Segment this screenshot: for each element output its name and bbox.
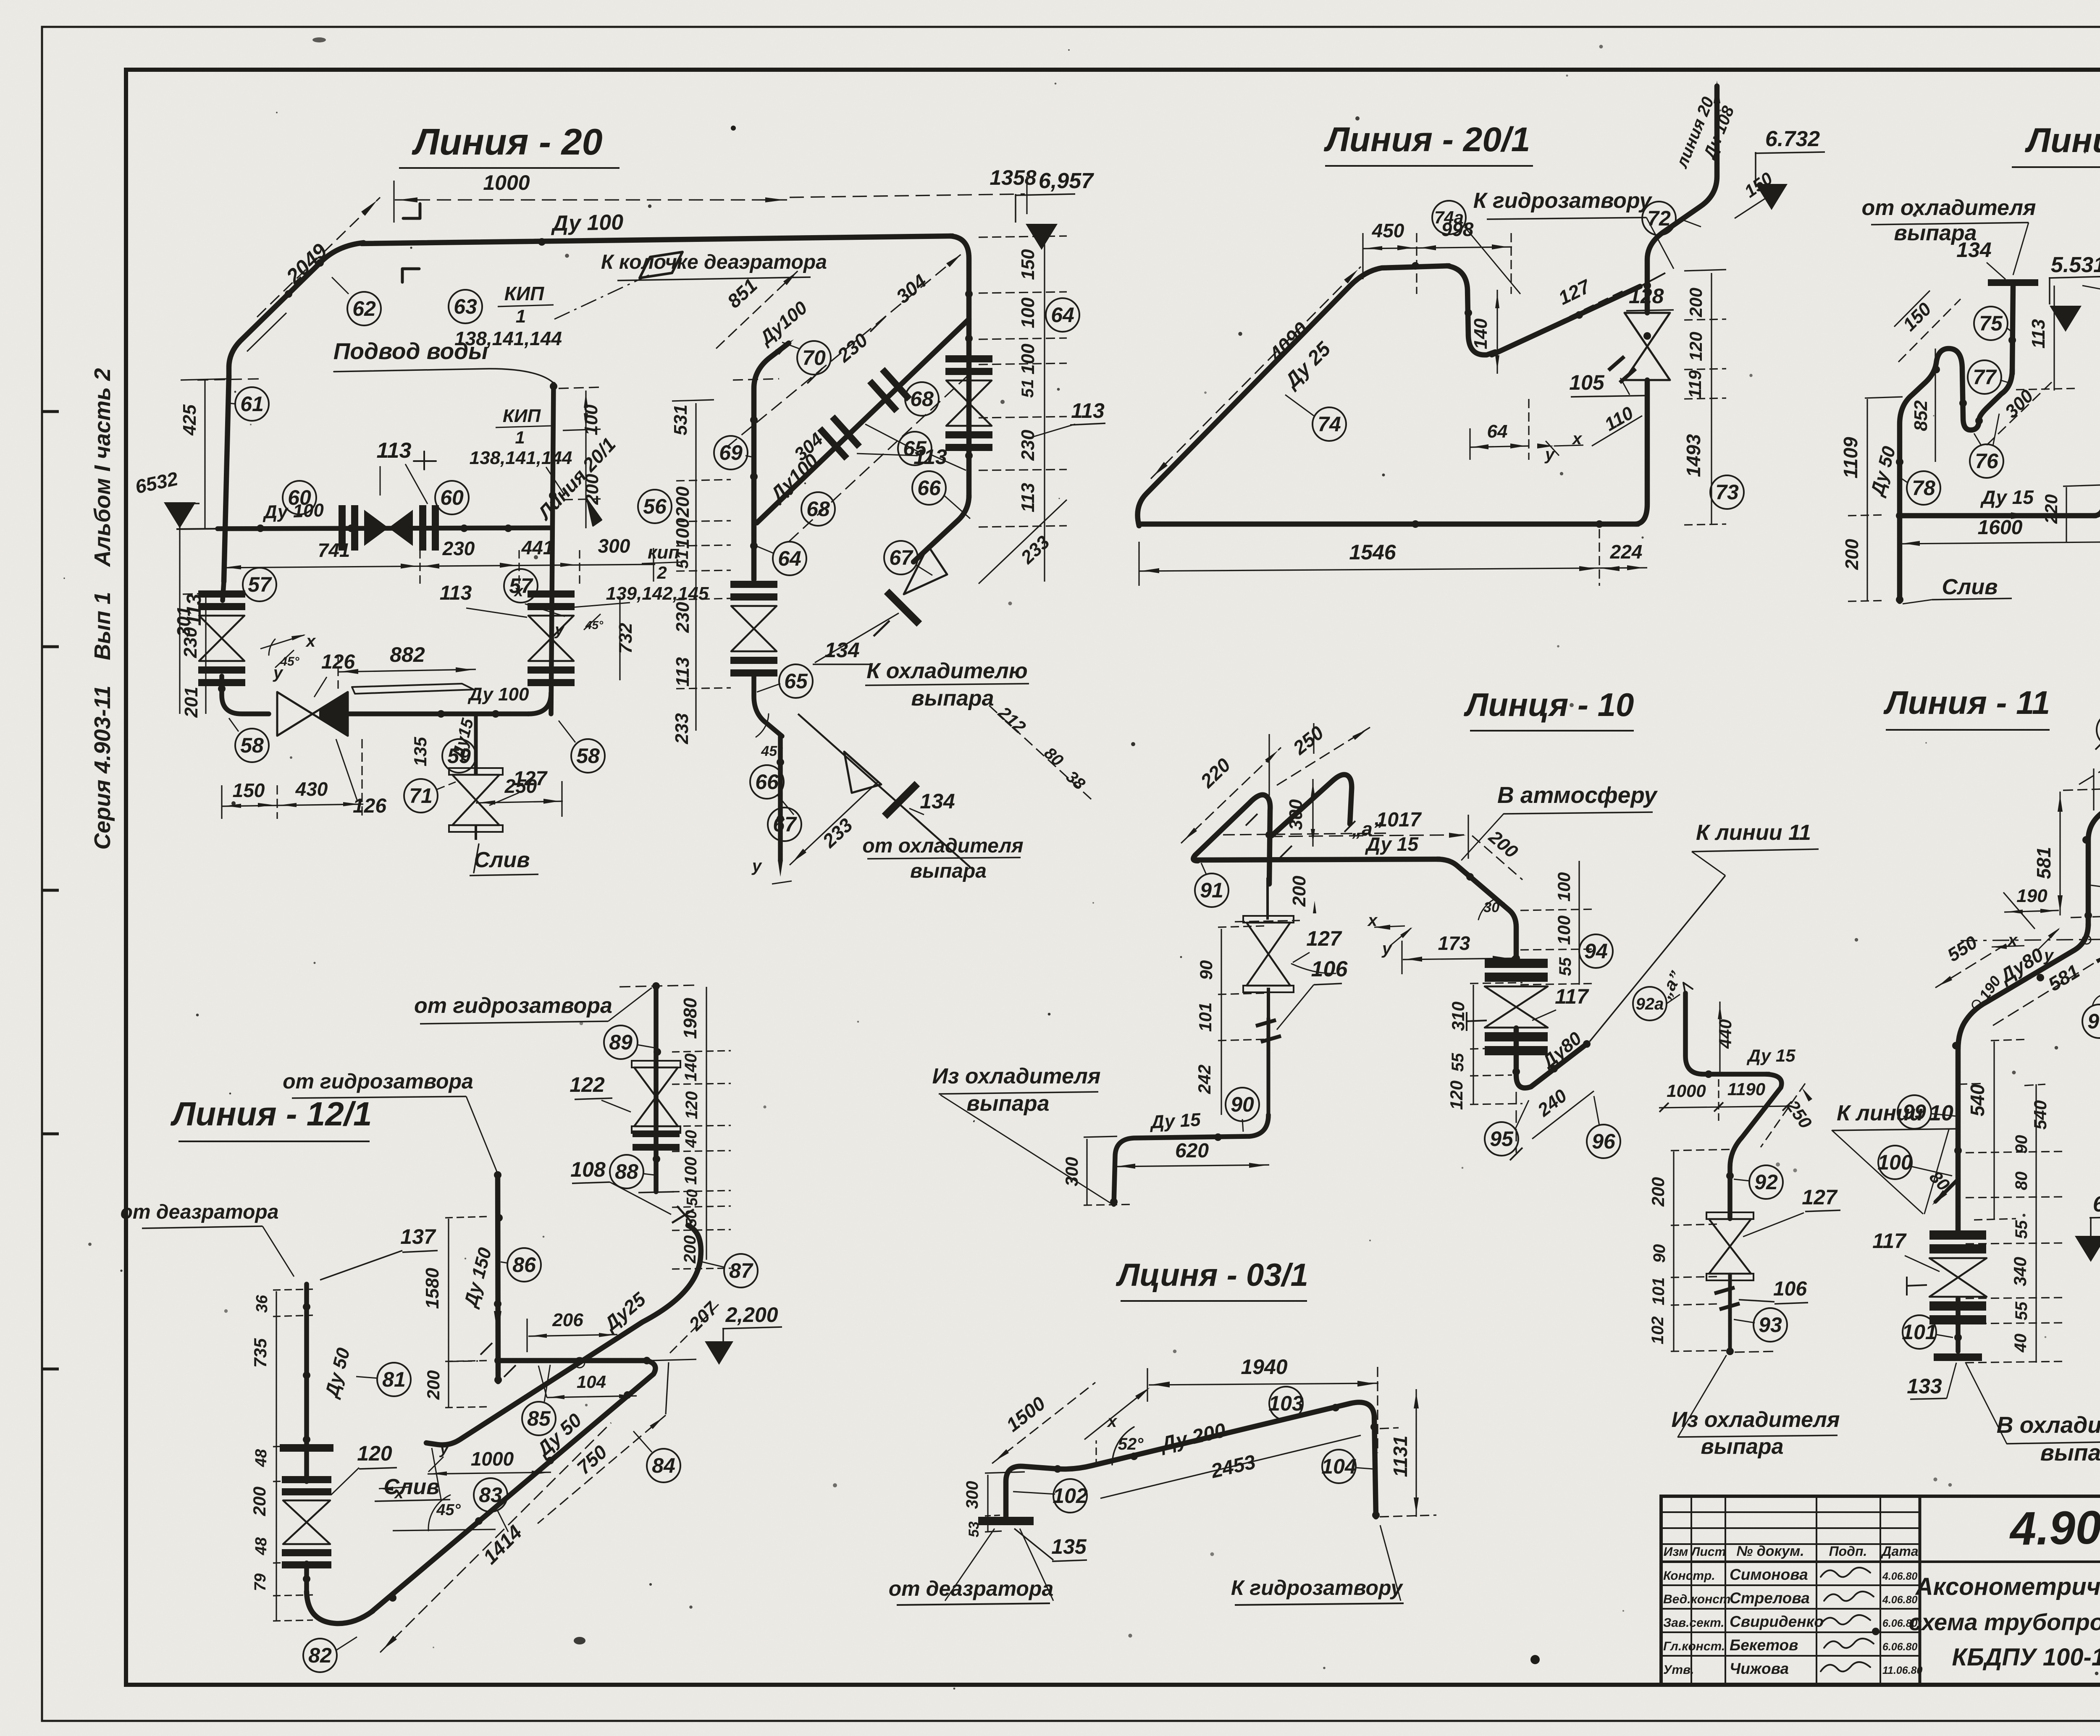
svg-text:Ду 15: Ду 15 [1980, 486, 2034, 508]
label 134 lower [909, 789, 955, 815]
svg-text:36: 36 [253, 1295, 271, 1313]
dim 240 line10 [1532, 1085, 1594, 1139]
circled 104 [1321, 1450, 1373, 1483]
dims 1000 1190 [1659, 1079, 1792, 1122]
svg-text:1017: 1017 [1376, 809, 1422, 831]
pipe below valve117 bend to diagonal [1516, 1028, 1587, 1088]
svg-text:Стрелова: Стрелова [1730, 1589, 1810, 1607]
svg-text:К охладителю: К охладителю [866, 659, 1027, 683]
svg-text:119: 119 [1685, 370, 1705, 399]
svg-text:1: 1 [515, 427, 525, 447]
circled 82 [303, 1637, 357, 1672]
svg-text:92а: 92а [1636, 995, 1664, 1013]
svg-text:Чижова: Чижова [1730, 1660, 1789, 1677]
svg-text:75: 75 [1979, 312, 2003, 335]
svg-text:у: у [1381, 939, 1392, 958]
45 deg label lower [756, 714, 783, 759]
level 6.732 mark [1755, 127, 1825, 210]
svg-text:425: 425 [179, 404, 200, 436]
svg-text:113: 113 [440, 582, 472, 604]
dim 173 line10 [1402, 932, 1518, 974]
svg-text:Линия - 20: Линия - 20 [411, 121, 602, 163]
ticks on diagonal line11 [2093, 768, 2094, 810]
svg-text:76: 76 [1975, 449, 1999, 473]
dim 1000 top [394, 171, 787, 223]
svg-text:92: 92 [1754, 1170, 1778, 1194]
pipe 20/1 s-bend down [1447, 266, 1495, 355]
svg-text:Из охладителя: Из охладителя [1671, 1408, 1840, 1432]
label от гидрозатвора upper [414, 988, 652, 1024]
x-y axis mark at valve57-right [513, 582, 604, 639]
svg-text:120: 120 [1446, 1080, 1466, 1110]
label 120 [331, 1442, 397, 1495]
dim chain right line10: 100 100 155 55 [1520, 861, 1596, 985]
svg-text:108: 108 [570, 1158, 606, 1181]
svg-text:48: 48 [252, 1537, 270, 1555]
title block columns left [1661, 1496, 1920, 1685]
dim 550 line11 lower left [1935, 932, 2012, 988]
dim 110 rotated [1592, 402, 1642, 446]
svg-text:135: 135 [410, 737, 430, 766]
label 127 [489, 768, 548, 805]
dim 220 line12 [2041, 485, 2100, 542]
dim 1131 03-1 [1380, 1389, 1436, 1517]
pipe elbow 45 down-left to cooler [913, 496, 969, 562]
svg-text:55: 55 [2012, 1220, 2031, 1239]
valve 127 slив branch [449, 714, 503, 840]
svg-text:6.600: 6.600 [2093, 1192, 2100, 1217]
dim 250 diagonal line10 [1277, 721, 1370, 785]
level mark 6532 [133, 467, 199, 528]
pipe line20 top run [362, 236, 953, 244]
svg-text:1940: 1940 [1241, 1355, 1287, 1379]
svg-text:138,141,144: 138,141,144 [470, 448, 572, 468]
circled 69 [714, 436, 756, 469]
svg-text:1: 1 [516, 306, 526, 327]
title Линия-12 [2012, 121, 2100, 167]
svg-text:1493: 1493 [1683, 434, 1704, 477]
svg-text:у: у [439, 1440, 449, 1458]
svg-text:1000: 1000 [483, 171, 530, 194]
svg-text:от гидрозатвора: от гидрозатвора [283, 1070, 473, 1093]
branch 80 arrow line11 [1926, 1167, 1958, 1205]
label К линии 10 line11 [1832, 1101, 1961, 1214]
svg-text:К гидрозатвору: К гидрозатвору [1231, 1576, 1403, 1600]
svg-text:190: 190 [2016, 886, 2047, 906]
svg-text:64: 64 [1051, 303, 1074, 327]
angle 45 12-1 [393, 1495, 496, 1531]
circled 67 right [884, 541, 932, 575]
svg-text:78: 78 [1912, 476, 1935, 500]
circled 60 right [435, 481, 469, 514]
dim 304 lower diagonal [789, 370, 974, 542]
circled 97 top [2095, 713, 2100, 750]
svg-text:300: 300 [963, 1481, 982, 1509]
svg-text:К колочке деаэратора: К колочке деаэратора [601, 251, 827, 273]
circled 100 [1877, 1146, 1952, 1179]
x-y axis line10 [1367, 911, 1412, 958]
svg-text:230: 230 [442, 538, 475, 559]
svg-text:100: 100 [1018, 344, 1038, 375]
svg-text:150: 150 [1018, 249, 1038, 280]
spindle mark valve126 [352, 684, 474, 694]
svg-text:Ду 15: Ду 15 [1365, 833, 1419, 855]
svg-text:852: 852 [1911, 400, 1931, 431]
dim 2453 [1100, 1435, 1361, 1498]
svg-text:у: у [1544, 445, 1555, 464]
svg-text:87: 87 [729, 1259, 753, 1282]
label от гидрозатвора lower [283, 1070, 498, 1174]
svg-text:140: 140 [682, 1054, 700, 1082]
svg-text:102: 102 [1648, 1316, 1667, 1345]
valve 117 line11 (black flanged gate) [1929, 1244, 1986, 1253]
svg-text:55: 55 [1556, 957, 1575, 976]
svg-text:150: 150 [233, 779, 265, 801]
circled 74a [1432, 201, 1520, 294]
svg-text:6.732: 6.732 [1765, 127, 1820, 151]
pipe line20 второй vertical x1795 [754, 343, 789, 580]
svg-text:540: 540 [1966, 1084, 1988, 1116]
svg-text:67: 67 [889, 546, 913, 569]
label 113 at valve57-left [183, 593, 205, 626]
label К гидрозатвору 03-1 [1231, 1525, 1404, 1605]
pipe 84 diagonal from junction down-left [372, 1361, 655, 1612]
dim 300 line12 diagonal [1987, 382, 2052, 445]
svg-text:53: 53 [966, 1521, 982, 1537]
svg-text:Аксонометрическая: Аксонометрическая [1915, 1573, 2100, 1600]
dim 207 diagonal [670, 1298, 722, 1353]
svg-text:от гидрозатвора: от гидрозатвора [414, 994, 612, 1018]
dim 1546 224 bottom [1139, 529, 1647, 586]
svg-text:51: 51 [673, 550, 692, 569]
dim 206 [527, 1310, 617, 1352]
dim chain left of valve117: 310 55 120 [1446, 983, 1522, 1110]
svg-text:70: 70 [802, 346, 826, 370]
diagonal pipe Ду100 68 [757, 319, 969, 523]
svg-text:250: 250 [504, 775, 537, 797]
arrow up to линия Дн108 [1714, 81, 1720, 103]
svg-text:Слив: Слив [474, 848, 530, 872]
svg-text:430: 430 [295, 778, 328, 800]
svg-text:Зав.сект.: Зав.сект. [1663, 1616, 1725, 1630]
label Подвод воды [333, 338, 554, 383]
label 106 92group [1739, 1278, 1808, 1304]
svg-text:310: 310 [1448, 1002, 1468, 1031]
dim 250 diagonal 92 [1761, 1083, 1816, 1147]
dim 200 vertical mid line10 [1235, 876, 1316, 922]
thin diagonal to cooler lower [798, 714, 970, 867]
flange bar 134 line12 top [1988, 279, 2038, 286]
svg-text:94: 94 [1584, 939, 1608, 963]
dim 113 at line12 top [2016, 286, 2075, 391]
svg-text:4.903-11-В.1-13: 4.903-11-В.1-13 [2009, 1497, 2100, 1555]
svg-text:133: 133 [1907, 1374, 1942, 1398]
dim 2049 diagonal [247, 197, 380, 351]
dim 212 80 38 along lower diagonal [989, 703, 1092, 800]
dim chain 92group: 200 90 101 102 [1648, 1149, 1734, 1351]
label 134 line12 [1956, 238, 2005, 279]
label от охладителя выпара line12 [1861, 196, 2036, 275]
svg-text:113: 113 [672, 657, 693, 687]
pipe line20 left vertical [224, 376, 229, 582]
weld dots top run [316, 259, 324, 267]
circled 88 [610, 1155, 654, 1188]
dim 1600 line12 [1900, 517, 2100, 546]
svg-text:Серия 4.903-11 Вып 1 Аль: Серия 4.903-11 Вып 1 Альбом I часть 2 [90, 368, 115, 850]
svg-text:1580: 1580 [422, 1268, 443, 1309]
valve 57-right (flanged gate) on drop [528, 603, 575, 610]
svg-text:Утв.: Утв. [1663, 1663, 1694, 1677]
svg-text:60: 60 [440, 486, 464, 509]
svg-text:45°: 45° [761, 743, 783, 759]
dashed elevation mark left vertical [197, 379, 262, 380]
svg-text:Линия - 11: Линия - 11 [1883, 684, 2050, 721]
svg-text:57: 57 [248, 573, 272, 596]
level 2.200 [705, 1303, 782, 1365]
weld dots right vertical [965, 290, 973, 298]
label от деазратора 12-1 [121, 1201, 294, 1277]
dim 750 Ду50 84 [531, 1409, 666, 1524]
dim 440 [1715, 1002, 1735, 1073]
svg-text:86: 86 [512, 1253, 536, 1277]
svg-text:4.06.80: 4.06.80 [1882, 1594, 1918, 1606]
svg-text:x: x [305, 632, 316, 650]
dim 1109 200 Ду50 left line12 [1840, 397, 1903, 601]
flange bar 134 upper [884, 589, 922, 627]
svg-text:120: 120 [1686, 332, 1706, 361]
pipe 82 vertical [304, 1448, 309, 1482]
circled 58 left [229, 718, 269, 762]
dim 450 998 top [1363, 218, 1512, 294]
pipe line10 bend 30deg down [1437, 859, 1516, 962]
dim chain right of right vertical: 150 100 100 51 230 113 233 [979, 227, 1067, 582]
pipe 92 below valve [1728, 1274, 1732, 1351]
label Из охладителя выпара line10 [932, 1064, 1114, 1205]
label Слив line20 [470, 844, 538, 876]
pipe line10 horizontal Ду15 [1196, 859, 1440, 860]
svg-text:67: 67 [773, 813, 797, 836]
svg-text:90: 90 [1650, 1244, 1669, 1263]
pipe line10 bottom elbow to left [1114, 1115, 1268, 1204]
svg-text:1358: 1358 [990, 166, 1036, 189]
svg-text:71: 71 [409, 784, 433, 808]
valve 127 line10 (cap bowtie) [1243, 916, 1294, 1018]
pipe line12 s-curve to middle [1900, 349, 2012, 601]
circled 56 with КИП 2 [638, 490, 672, 523]
svg-text:1131: 1131 [1389, 1436, 1411, 1477]
circled 94 [1579, 934, 1613, 968]
svg-text:1000: 1000 [1667, 1081, 1706, 1101]
dim 250 under slив [476, 775, 563, 817]
label Из охладителя выпара 92group [1671, 1356, 1840, 1459]
label В атмосферу [1462, 782, 1658, 860]
svg-text:66: 66 [917, 476, 941, 500]
level 5.531 mark line12 [2049, 253, 2100, 332]
svg-text:134: 134 [1956, 238, 1991, 262]
pipe line10 diagonal-1 with cap to valve column [1193, 795, 1270, 884]
reducer open triangle on cooler line [904, 546, 947, 594]
svg-text:74а: 74а [1434, 207, 1464, 227]
valve 57-left (flanged gate) [198, 603, 245, 610]
svg-text:101: 101 [1902, 1320, 1937, 1344]
svg-text:173: 173 [1438, 932, 1470, 954]
circled 62 [332, 277, 381, 325]
title Аксонометрическая схема [1909, 1573, 2100, 1671]
label линия Дн108 rotated [1672, 94, 1738, 171]
svg-text:106: 106 [1773, 1278, 1807, 1300]
svg-text:6.06.80: 6.06.80 [1882, 1641, 1918, 1653]
dim 135 Ду15 labels [410, 716, 477, 766]
dim 732 right [615, 596, 636, 680]
svg-text:200: 200 [1648, 1177, 1668, 1207]
svg-text:440: 440 [1715, 1019, 1735, 1049]
svg-text:от деазратора: от деазратора [121, 1201, 279, 1223]
valve 113 on second vertical (flanged gate) [730, 593, 777, 601]
circled 84 [633, 1431, 680, 1482]
svg-text:581: 581 [2033, 847, 2055, 879]
valve 122 (cap bowtie + flanges) [632, 1061, 680, 1151]
svg-text:КБДПУ 100-180: КБДПУ 100-180 [1952, 1644, 2100, 1671]
svg-text:620: 620 [1175, 1140, 1209, 1162]
pipe right vertical through valve113 [966, 359, 972, 498]
svg-text:88: 88 [615, 1160, 638, 1183]
svg-text:48: 48 [252, 1449, 270, 1467]
dim 64 x y axes 20/1 [1470, 399, 1583, 464]
dash-dot long horizontal line11 [1961, 937, 2100, 942]
svg-text:выпара: выпара [911, 686, 994, 711]
dim 581 top diagonal line11 [2079, 706, 2100, 784]
svg-text:100: 100 [1877, 1151, 1913, 1174]
dim 200 diagonal line10 right [1472, 826, 1522, 880]
flange bar 134 lower [882, 781, 920, 819]
svg-text:58: 58 [240, 734, 264, 757]
svg-text:134: 134 [824, 638, 859, 662]
svg-text:81: 81 [382, 1368, 406, 1391]
dim 1358 top [790, 166, 1037, 214]
circled 83 [474, 1478, 508, 1532]
pipe line10 diagonal-2 to а-prime [1272, 775, 1352, 836]
circled 74 [1285, 395, 1346, 441]
svg-text:77: 77 [1973, 365, 1997, 389]
pipe 92 vertical upper [1685, 993, 1769, 1074]
svg-text:45°: 45° [436, 1501, 461, 1519]
svg-text:84: 84 [652, 1454, 675, 1477]
КИП 1 block near Подвод воды [470, 406, 572, 496]
pipe vertical x1855 lower [778, 735, 783, 861]
svg-text:К гидрозатвору: К гидрозатвору [1473, 189, 1653, 213]
svg-text:45°: 45° [585, 619, 604, 632]
dim 1414 [380, 1423, 611, 1652]
circled 64 far right [1046, 298, 1079, 332]
svg-text:от охладителя: от охладителя [1861, 196, 2036, 220]
circled 86 [501, 1248, 541, 1282]
circled 65 right [898, 432, 966, 470]
label К колочке деаэратора [601, 251, 827, 281]
valve 127 на 92 (cap bowtie) [1706, 1212, 1753, 1219]
svg-text:220: 220 [2041, 494, 2061, 524]
label К охладителю выпара [865, 659, 1029, 711]
dim 620 line10 bottom [1115, 1140, 1269, 1169]
svg-text:Свириденко: Свириденко [1730, 1613, 1824, 1630]
valve 128 (open bowtie vertical) [1625, 313, 1670, 380]
leader К линии 11 [1590, 821, 1819, 1041]
circled 101 [1902, 1315, 1953, 1349]
svg-text:93: 93 [1759, 1313, 1782, 1337]
svg-text:65: 65 [903, 437, 927, 460]
svg-text:90: 90 [1231, 1093, 1254, 1116]
tick lines on dims line10 [1313, 723, 1314, 754]
svg-text:6,957: 6,957 [1039, 169, 1094, 193]
leader to deaerator flag [554, 275, 649, 319]
label 137 [320, 1225, 438, 1280]
circled 73 [1710, 475, 1744, 509]
svg-text:61: 61 [240, 392, 264, 416]
svg-text:200: 200 [1842, 539, 1862, 570]
svg-text:882: 882 [390, 643, 425, 666]
svg-text:91: 91 [1200, 878, 1223, 902]
dash elevation through dot [1223, 833, 1390, 835]
svg-text:от деазратора: от деазратора [889, 1577, 1054, 1600]
pipe 86 vertical Ду150 [498, 1175, 498, 1382]
svg-text:201: 201 [181, 687, 202, 718]
svg-text:68: 68 [910, 387, 934, 411]
svg-text:242: 242 [1194, 1065, 1214, 1094]
svg-text:Слив: Слив [1942, 575, 1998, 599]
valve 117 line10 (black flanged gate) [1485, 973, 1548, 982]
dim 150 rotated near riser [1735, 168, 1777, 218]
pipe below valve117 line11 [1956, 1298, 1961, 1351]
svg-text:100: 100 [682, 1157, 700, 1185]
level 6.600 mark [2075, 1192, 2100, 1262]
svg-text:45°: 45° [280, 655, 299, 669]
svg-text:90: 90 [2012, 1135, 2031, 1154]
valve 113 solid (Подвод воды) [364, 510, 388, 546]
svg-text:113: 113 [1018, 483, 1038, 512]
svg-text:Констр.: Констр. [1663, 1569, 1715, 1583]
pipe horizontal 85 [498, 1358, 647, 1364]
dim 540 line11 [1966, 1039, 2029, 1220]
svg-text:79: 79 [252, 1573, 269, 1591]
svg-text:117: 117 [1872, 1229, 1907, 1253]
dim 233 diagonal right [979, 500, 1067, 584]
label 117 line10 [1532, 985, 1589, 1020]
angle 52 03-1 [1096, 1427, 1144, 1466]
flag symbol on top pipe [640, 252, 682, 278]
svg-text:2: 2 [656, 563, 667, 582]
dim 150 diagonal line12 [1894, 291, 1961, 362]
pipe line20 right vertical (Подвод воды drop) [551, 384, 554, 714]
svg-text:200: 200 [1686, 288, 1706, 317]
svg-text:106: 106 [1311, 957, 1348, 981]
dashed x mark near branch [2024, 1084, 2045, 1086]
angle 30 line10 [1478, 899, 1505, 920]
flange bar 133 [1934, 1353, 1982, 1361]
svg-text:441: 441 [521, 537, 554, 559]
pipe 20/1 left elbow and big diagonal [1138, 266, 1449, 526]
svg-text:1546: 1546 [1349, 540, 1396, 564]
thin drop below line10 diagonal [1515, 1092, 1517, 1153]
pipe below valve113 elbow 45 down-right [754, 676, 782, 736]
dim 190 lower line11 [2003, 886, 2059, 929]
dim chain right of 20/1 riser: 200 120 119 1493 [1683, 270, 1726, 525]
circled 102 [1013, 1479, 1088, 1513]
label от охладителя выпара lower [862, 835, 1023, 882]
svg-text:74: 74 [1318, 412, 1341, 436]
dim 104 [538, 1366, 637, 1399]
label 108 87 [0, 0, 0, 0]
hash mark on upper diagonal [1606, 354, 1638, 385]
svg-text:Линия - 20/1: Линия - 20/1 [1324, 121, 1530, 159]
